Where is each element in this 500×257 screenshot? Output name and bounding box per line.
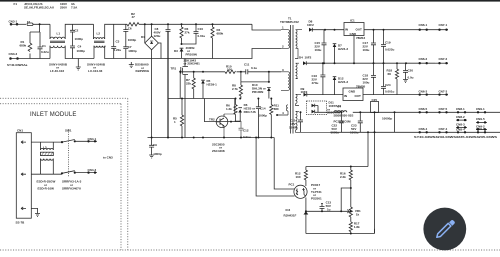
pencil icon <box>437 220 455 237</box>
svg-text:LF-40-103: LF-40-103 <box>50 69 64 73</box>
capacitor C4 1000p <box>70 44 85 59</box>
svg-text:CN7-3: CN7-3 <box>439 90 448 94</box>
svg-text:D3: D3 <box>174 49 178 53</box>
svg-text:CN8-3: CN8-3 <box>456 122 465 126</box>
svg-text:0.01u: 0.01u <box>243 135 251 139</box>
wire from TR1 to transformer lower pin <box>277 114 281 116</box>
svg-text:PC1: PC1 <box>289 183 295 187</box>
svg-text:1.8k: 1.8k <box>354 225 360 229</box>
svg-text:CN8-2: CN8-2 <box>456 115 465 119</box>
svg-text:SY40-03WSAa: SY40-03WSAa <box>7 63 28 67</box>
svg-text:CN6-2: CN6-2 <box>419 57 428 61</box>
node CN8-3 stub <box>456 122 467 128</box>
wire output rail D <box>353 111 500 113</box>
capacitor C8 400V 120u <box>154 23 171 137</box>
svg-text:1000p: 1000p <box>75 37 84 41</box>
diode D12 zener HZ24-3 <box>333 63 349 94</box>
node CN6-2 CN7-2 <box>419 57 448 64</box>
svg-text:0.1u: 0.1u <box>251 66 257 70</box>
node CN3-3 <box>9 52 19 60</box>
svg-text:CN6-5: CN6-5 <box>419 107 428 111</box>
svg-text:10F2: 10F2 <box>307 23 314 27</box>
svg-text:C19: C19 <box>385 41 391 45</box>
svg-text:CN9-2: CN9-2 <box>476 125 485 129</box>
svg-text:1000p: 1000p <box>128 49 137 53</box>
capacitor C25 box 10000p <box>371 98 393 234</box>
svg-text:470u: 470u <box>312 81 319 85</box>
fuse F1 <box>27 20 33 25</box>
transistor TR1 2SC2655 <box>209 99 235 153</box>
svg-text:100u: 100u <box>315 48 322 52</box>
junction dots on primary rail <box>151 121 273 139</box>
node CN4-1 <box>75 137 97 143</box>
svg-text:1: 1 <box>282 26 284 30</box>
svg-text:CN9-1: CN9-1 <box>476 107 485 111</box>
wire aux winding line with R10 C11 <box>179 63 281 83</box>
capacitor C13 50V 1u <box>320 201 332 212</box>
svg-text:1000p: 1000p <box>77 49 86 53</box>
svg-text:1u: 1u <box>327 207 331 211</box>
svg-text:SS-7B: SS-7B <box>16 221 26 225</box>
svg-text:LU-104-03: LU-104-03 <box>88 69 103 73</box>
node CN3-1 <box>9 20 19 26</box>
top screen edge bar <box>0 0 500 2</box>
svg-text:OUT: OUT <box>355 94 362 98</box>
wire gate drive net <box>168 98 235 100</box>
capacitor C20 0.0047u to ground <box>403 63 414 82</box>
svg-text:0.001u: 0.001u <box>385 90 395 94</box>
svg-text:10F2: 10F2 <box>305 56 312 60</box>
svg-text:TDY8685-F02: TDY8685-F02 <box>280 20 299 24</box>
wire feedback sense drop A <box>367 132 369 166</box>
svg-text:47: 47 <box>132 15 136 19</box>
diode D9 10F2 row C <box>301 87 344 97</box>
svg-text:C3: C3 <box>116 40 120 44</box>
node CN8-2 stub <box>456 115 467 121</box>
svg-text:27k: 27k <box>185 30 190 34</box>
svg-text:10000p: 10000p <box>382 117 392 121</box>
capacitor C24 0.001u <box>381 63 395 94</box>
capacitor C22 50V 1000u <box>331 111 345 134</box>
svg-text:IC3: IC3 <box>286 208 291 212</box>
svg-text:IC1: IC1 <box>350 19 355 23</box>
resistor R6 1.2k <box>226 98 240 122</box>
wire primary top to transformer pin1 <box>252 24 281 30</box>
shunt reg IC3 RJN431F <box>284 208 309 234</box>
wire feedback ground rail <box>306 229 375 234</box>
capacitor C15 22V 100u <box>315 30 327 64</box>
transistor TR1 mosfet 2SK1943 <box>171 58 201 137</box>
svg-text:CN7-2: CN7-2 <box>439 57 448 61</box>
svg-text:PR100N: PR100N <box>186 52 197 56</box>
svg-text:SE,UK,FR,WS,SG,AU: SE,UK,FR,WS,SG,AU <box>24 6 54 10</box>
svg-text:C12: C12 <box>243 129 249 133</box>
svg-text:HZ24-3: HZ24-3 <box>338 47 348 51</box>
choke L3 inlet <box>31 142 62 190</box>
svg-text:C6: C6 <box>128 27 132 31</box>
capacitor C7 1000p <box>123 45 137 59</box>
resistor R4 680k <box>211 23 224 58</box>
op IC2 78M05 regulator <box>343 85 366 101</box>
svg-text:78M12: 78M12 <box>356 36 366 40</box>
wire output rail E <box>330 131 500 133</box>
node CN6-4 CN7-4 CN8-4 CN9-3 <box>419 127 487 134</box>
capacitor C23 50V 1000u <box>350 111 363 134</box>
ground for Y-caps <box>76 59 81 71</box>
svg-text:CN7-1: CN7-1 <box>439 23 448 27</box>
svg-text:1: 1 <box>174 120 176 124</box>
op IC1 78M12 regulator <box>344 19 366 64</box>
bridge rectifier D1 <box>135 23 161 137</box>
node CN6-1 CN7-1 <box>419 23 448 31</box>
svg-text:RD4.7JS: RD4.7JS <box>244 110 256 114</box>
svg-text:C11: C11 <box>244 63 250 67</box>
wire TR2 base net <box>205 99 241 122</box>
switch SW1 <box>61 129 82 191</box>
diode D3 zener <box>174 44 197 58</box>
svg-text:0.22u: 0.22u <box>41 50 49 54</box>
svg-text:CN9-5: CN9-5 <box>476 117 485 121</box>
node CN9-2 stub <box>476 125 487 131</box>
svg-text:68: 68 <box>388 72 392 76</box>
svg-text:CN6-1: CN6-1 <box>419 23 428 27</box>
svg-text:1000p: 1000p <box>259 114 268 118</box>
dual diode D11 10FPA40 dashed package <box>299 101 341 115</box>
svg-text:CN8-1: CN8-1 <box>456 107 465 111</box>
svg-text:2: 2 <box>282 45 284 49</box>
svg-text:PR100N: PR100N <box>252 90 263 94</box>
svg-text:2.7k: 2.7k <box>232 87 238 91</box>
wire output row 1 <box>364 29 448 31</box>
svg-text:GND: GND <box>349 89 357 93</box>
svg-text:1000p: 1000p <box>153 152 162 156</box>
node CN4-3 <box>75 168 97 174</box>
capacitor C10 <box>181 23 206 45</box>
svg-text:F1: F1 <box>14 2 18 6</box>
capacitor C14 1000p <box>256 98 267 138</box>
svg-text:D4: D4 <box>299 56 303 60</box>
svg-text:CN7-4: CN7-4 <box>439 127 448 131</box>
resistor R8 2.7k <box>232 82 243 99</box>
capacitor C12 <box>235 121 251 139</box>
svg-text:C2: C2 <box>75 29 79 33</box>
capacitor C18 22V 100u <box>363 63 377 94</box>
svg-text:to CN3: to CN3 <box>103 156 113 160</box>
svg-text:IN: IN <box>345 28 348 32</box>
svg-text:680k: 680k <box>20 43 27 47</box>
capacitor C16 22V 470u <box>312 62 326 94</box>
svg-text:CN6-4: CN6-4 <box>419 127 428 131</box>
svg-text:CN6-3: CN6-3 <box>419 90 428 94</box>
diode D7 HZ24-3 <box>333 30 349 64</box>
diode D6 zener RD4.7JS <box>238 98 256 122</box>
node CN6-3 CN7-3 <box>419 90 448 96</box>
svg-text:3: 3 <box>282 68 284 72</box>
ground near bridge <box>129 62 134 68</box>
svg-text:KBP206G: KBP206G <box>136 69 150 73</box>
wire drain line to transformer pin2 <box>185 49 281 59</box>
capacitor C19 0.022u <box>381 29 395 64</box>
svg-text:SY40-03WS3233-03WS3235-04WS323: SY40-03WS3233-03WS3235-04WS3235-03WS <box>414 135 497 139</box>
svg-text:0.0u: 0.0u <box>408 76 414 80</box>
ground for CN1 <box>31 208 40 216</box>
svg-text:OUT: OUT <box>356 28 363 32</box>
resistor R16 2.2k <box>340 166 352 208</box>
capacitor C17 22V 100u <box>363 29 377 64</box>
opto PC1 PC817 <box>289 183 323 212</box>
svg-text:L2: L2 <box>97 32 101 36</box>
choke L1 <box>49 24 94 73</box>
svg-text:1k: 1k <box>356 212 360 216</box>
junction dots rail D/E crossings <box>367 111 396 133</box>
svg-text:250V: 250V <box>60 6 67 10</box>
wire top AC line <box>10 23 26 25</box>
svg-text:22k: 22k <box>186 81 191 85</box>
wire feedback bottom net <box>306 210 351 212</box>
svg-text:SUNY-0240B: SUNY-0240B <box>87 63 106 67</box>
svg-text:CN3-1: CN3-1 <box>9 20 18 24</box>
svg-text:C10: C10 <box>198 27 204 31</box>
connector CN1 <box>16 129 32 225</box>
svg-text:C20: C20 <box>408 69 414 73</box>
svg-text:2SC4408: 2SC4408 <box>212 149 225 153</box>
wire feedback top net <box>306 166 368 168</box>
svg-text:100u: 100u <box>363 48 370 52</box>
svg-text:0.01u: 0.01u <box>198 34 206 38</box>
svg-text:100: 100 <box>296 175 301 179</box>
svg-text:4: 4 <box>282 111 284 115</box>
svg-text:HZ24-3: HZ24-3 <box>338 80 348 84</box>
svg-text:L4: L4 <box>338 105 342 109</box>
capacitor C1 0.22u <box>38 32 49 59</box>
wire aux top net <box>241 81 269 83</box>
svg-text:1000p: 1000p <box>128 38 137 42</box>
svg-text:120u: 120u <box>154 34 161 38</box>
transformer T1 TDY8685-F02 <box>280 17 330 134</box>
wire rail D to E jumper <box>394 112 396 132</box>
fuse rating table text <box>14 2 79 9</box>
svg-text:1500u: 1500u <box>289 125 298 129</box>
svg-text:SRRFA3407U: SRRFA3407U <box>62 186 81 190</box>
svg-text:7.5A: 7.5A <box>71 6 78 10</box>
outer unit dashed boundary <box>0 98 500 250</box>
resistor R11 680 <box>270 98 280 138</box>
inlet module dashed box <box>0 104 121 250</box>
inductor L4 on rail D <box>334 105 354 124</box>
resistor R2 47 in line <box>127 12 252 26</box>
wire top AC line to choke L1 <box>33 23 50 25</box>
svg-text:680: 680 <box>274 107 279 111</box>
diode D5 HZS9-1 <box>201 72 217 99</box>
wire output row C <box>363 94 448 96</box>
svg-text:PS2501: PS2501 <box>311 197 322 201</box>
edit FAB button <box>423 208 466 251</box>
svg-text:or 2SK3481: or 2SK3481 <box>184 62 201 66</box>
wire bottom AC line <box>10 58 50 60</box>
svg-text:CN1: CN1 <box>17 129 23 133</box>
node CN9-5 stub <box>476 117 487 123</box>
capacitor C21 16V 1500u <box>289 111 303 132</box>
node CN6-5 CN7-5 CN8-1 CN9-1 <box>419 107 487 114</box>
svg-text:L1: L1 <box>57 32 61 36</box>
svg-text:CN3-3: CN3-3 <box>9 52 18 56</box>
wire opto drive lines <box>256 138 294 197</box>
diode D4 10F2 row B <box>299 56 435 66</box>
svg-text:1.2k: 1.2k <box>226 107 232 111</box>
svg-text:SB08-030-03S: SB08-030-03S <box>334 113 354 117</box>
resistor R5 1 <box>173 98 184 138</box>
svg-text:RJN431F: RJN431F <box>284 214 297 218</box>
svg-text:IN: IN <box>344 94 347 98</box>
svg-text:HZS9-1: HZS9-1 <box>207 82 218 86</box>
capacitor C3 0.22u <box>111 24 121 58</box>
diode D8 10F2 <box>302 20 344 32</box>
svg-text:TR1: TR1 <box>171 67 177 71</box>
svg-text:CN7-5: CN7-5 <box>439 107 448 111</box>
svg-text:ESD-R-10W: ESD-R-10W <box>38 186 55 190</box>
resistor R1 680k <box>20 23 41 58</box>
diode D10 PR100N <box>252 82 271 99</box>
svg-text:0.022u: 0.022u <box>385 48 395 52</box>
wire R16 branch <box>341 188 351 211</box>
resistor R12 100 <box>295 167 308 185</box>
resistor R7 22k <box>186 72 195 99</box>
capacitor C9 1000p to ground <box>149 138 162 159</box>
choke L2 <box>87 24 185 73</box>
svg-text:INLET MODULE: INLET MODULE <box>30 112 77 118</box>
capacitor C6 1000p <box>123 24 136 46</box>
junction dots row B <box>323 62 407 64</box>
svg-text:2.2k: 2.2k <box>340 175 346 179</box>
capacitor C2 1000p <box>70 24 83 44</box>
resistor R17 1.8k <box>349 222 360 234</box>
potentiometer VR1 1k <box>347 207 361 222</box>
wire primary ground rail <box>148 137 275 139</box>
resistor R3 27k <box>180 23 190 44</box>
svg-text:C1: C1 <box>42 44 46 48</box>
wire output row B to CN <box>435 62 448 64</box>
svg-text:TR2: TR2 <box>209 118 215 122</box>
resistor R18 68 <box>387 63 399 94</box>
svg-text:680k: 680k <box>217 31 224 35</box>
